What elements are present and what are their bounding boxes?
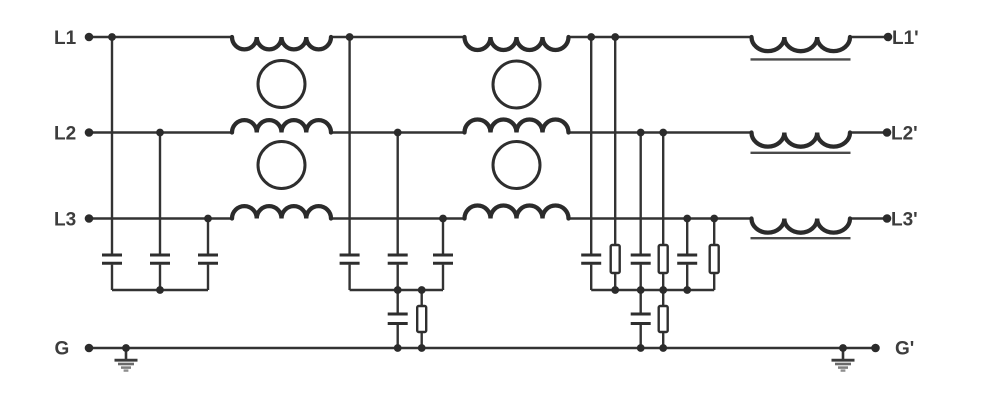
wire Cx6 branch to star bus — [442, 265, 444, 290]
capacitor Cx6 (L3 star) — [433, 254, 453, 257]
wire Cx5 branch to star bus — [397, 265, 399, 290]
wire L1 segment between chokes — [331, 36, 465, 38]
junction L3-Cx9 — [683, 215, 691, 223]
resistor R5 (bleed to ground) — [659, 306, 668, 332]
wire L1 output segment — [850, 36, 888, 38]
wire R1 branch from star bus 2 — [421, 290, 423, 306]
wire Cx2 branch to star bus — [159, 265, 161, 290]
wire L2 output segment — [850, 131, 887, 133]
wire R1 branch to ground — [421, 332, 423, 348]
wire Cx4 branch to star bus — [348, 265, 350, 290]
wire L3 segment between chokes — [331, 217, 465, 219]
wire L2 segment choke2 to L5 coil — [569, 131, 752, 133]
wire star bus 3 — [591, 289, 714, 291]
capacitor Cx7 (L1 star) — [581, 254, 601, 257]
capacitor Cx1 (L1 star) — [102, 254, 122, 257]
wire L3 segment choke2 to L6 coil — [569, 217, 752, 219]
wire Cx8 branch from L2 — [640, 133, 642, 254]
wire star bus 1 — [112, 289, 208, 291]
choke CM1 coupling circle bottom — [258, 142, 305, 189]
junction ground - R1 — [418, 344, 426, 352]
junction ground - Cy1 — [394, 344, 402, 352]
junction star bus 2 - R1 — [418, 286, 426, 294]
terminal G' — [871, 344, 880, 353]
choke CM1 winding on L1 — [232, 37, 331, 49]
choke CM2 coupling circle bottom — [493, 142, 540, 189]
choke CM1 coupling circle top — [258, 61, 305, 108]
capacitor Cx9 (L3 star) — [677, 254, 697, 257]
junction L1-Cx7 — [587, 33, 595, 41]
wire L2 segment between chokes — [331, 131, 465, 133]
junction L1-R2 — [611, 33, 619, 41]
junction L1-Cx1 — [108, 33, 116, 41]
wire R3 branch to star bus — [662, 273, 664, 290]
wire L1 input segment — [89, 36, 232, 38]
wire Cx9 branch to star bus — [686, 265, 688, 290]
capacitor Cx4 (L1 star) — [340, 254, 360, 257]
wire Cy1 branch to ground — [397, 325, 399, 348]
wire L2 input segment — [89, 131, 232, 133]
wire Cy2 branch from star bus 3 — [640, 290, 642, 313]
junction star bus 2 - Cy1 — [394, 286, 402, 294]
svg-text:L1': L1' — [892, 28, 919, 49]
junction ground - R5 — [659, 344, 667, 352]
wire R4 branch to star bus — [713, 273, 715, 290]
capacitor Cy1 (star to ground) — [388, 313, 408, 316]
wire Cx3 branch from L3 — [207, 219, 209, 254]
junction star bus 3 - Cy2 — [637, 286, 645, 294]
wire Cx6 branch from L3 — [442, 219, 444, 254]
wire Cx8 branch to star bus — [640, 265, 642, 290]
wire Cx9 branch from L3 — [686, 219, 688, 254]
wire star bus 2 — [350, 289, 443, 291]
terminal G — [85, 344, 94, 353]
terminal L2 — [85, 128, 94, 137]
terminal L1' — [884, 33, 893, 42]
choke CM2 coupling circle top — [493, 61, 540, 108]
inductor L6 coil on L3 output — [752, 219, 850, 233]
ground symbol left — [115, 348, 138, 371]
svg-text:L1: L1 — [54, 28, 77, 49]
junction L2-Cx2 — [156, 129, 164, 137]
wire Cx5 branch from L2 — [397, 133, 399, 254]
choke CM1 winding on L2 — [232, 120, 331, 132]
junction ground - right earth — [839, 344, 847, 352]
wire Cx7 branch from L1 — [590, 37, 592, 254]
capacitor Cx3 (L3 star) — [198, 254, 218, 257]
junction L1-Cx4 — [346, 33, 354, 41]
wire Cx7 branch to star bus — [590, 265, 592, 290]
choke CM2 winding on L2 — [465, 120, 569, 133]
wire Cx2 branch from L2 — [159, 133, 161, 254]
ground symbol right — [832, 348, 855, 371]
resistor R3 (L2 damping) — [659, 245, 668, 273]
wire Cy1 branch from star bus 2 — [397, 290, 399, 313]
terminal L3' — [883, 214, 892, 223]
wire ground bus G to G' — [89, 347, 876, 349]
inductor L6 core bar — [751, 237, 851, 239]
choke CM2 winding on L3 — [465, 206, 569, 219]
terminal L3 — [85, 214, 94, 223]
wire R3 branch from L2 — [662, 133, 664, 246]
inductor L4 coil on L1 output — [752, 37, 850, 51]
junction L3-R4 — [710, 215, 718, 223]
wire Cx4 branch from L1 — [348, 37, 350, 254]
svg-text:G: G — [55, 339, 70, 360]
capacitor Cx8 (L2 star) — [631, 254, 651, 257]
inductor L4 core bar — [751, 58, 851, 60]
svg-text:L3: L3 — [54, 210, 76, 231]
wire Cy2 branch to ground — [640, 325, 642, 348]
junction ground - Cy2 — [637, 344, 645, 352]
wire R4 branch from L3 — [713, 219, 715, 246]
junction L3-Cx6 — [439, 215, 447, 223]
wire Cx3 branch to star bus — [207, 265, 209, 290]
capacitor Cx2 (L2 star) — [150, 254, 170, 257]
wire Cx1 branch from L1 — [111, 37, 113, 254]
choke CM1 winding on L3 — [232, 206, 331, 218]
junction star bus 3 - Cx9 — [683, 286, 691, 294]
terminal L1 — [85, 33, 94, 42]
junction ground - left earth — [122, 344, 130, 352]
junction star bus 3 - R5 — [659, 286, 667, 294]
capacitor Cx5 (L2 star) — [388, 254, 408, 257]
resistor R2 (L1 damping) — [611, 245, 620, 273]
wire L1 segment choke2 to L4 coil — [569, 36, 752, 38]
junction L3-Cx3 — [204, 215, 212, 223]
inductor L5 core bar — [751, 152, 851, 154]
wire Cx1 branch to star bus — [111, 265, 113, 290]
resistor R1 (bleed to ground) — [417, 306, 426, 332]
wire R2 branch from L1 — [614, 37, 616, 245]
wire L3 output segment — [850, 217, 887, 219]
junction L2-Cx5 — [394, 129, 402, 137]
junction L2-R3 — [659, 129, 667, 137]
svg-text:L2: L2 — [54, 124, 76, 145]
terminal L2' — [883, 128, 892, 137]
junction star bus 3 - R2 — [611, 286, 619, 294]
junction L2-Cx8 — [637, 129, 645, 137]
resistor R4 (L3 damping) — [710, 245, 719, 273]
svg-text:L3': L3' — [891, 210, 918, 231]
wire L3 input segment — [89, 217, 232, 219]
inductor L5 coil on L2 output — [752, 133, 850, 147]
wire R5 branch from star bus 3 — [662, 290, 664, 306]
capacitor Cy2 (star to ground) — [631, 313, 651, 316]
wire R2 branch to star bus — [614, 273, 616, 290]
svg-text:L2': L2' — [891, 124, 918, 145]
junction star bus 1 center — [156, 286, 164, 294]
svg-text:G': G' — [895, 339, 914, 360]
choke CM2 winding on L1 — [465, 37, 569, 50]
wire R5 branch to ground — [662, 332, 664, 348]
